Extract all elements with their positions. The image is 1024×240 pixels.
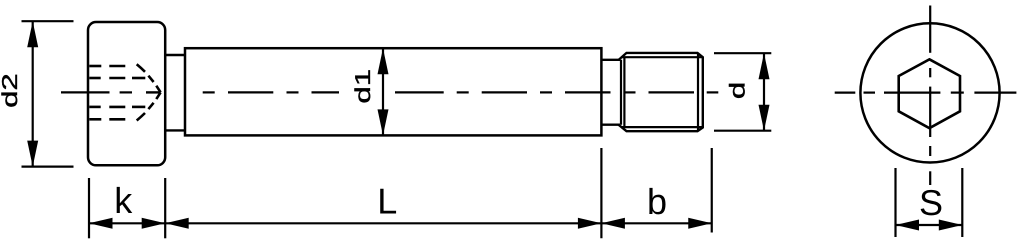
dimension b: dimension line with arrows bbox=[601, 222, 711, 224]
thread runout verticals bbox=[621, 53, 698, 131]
thread minor diameter lines bbox=[621, 57, 703, 127]
dimension d: dimension line with arrows bbox=[763, 53, 765, 131]
shoulder cylinder d1 bbox=[185, 48, 601, 135]
threaded end outer contour with chamfers bbox=[619, 53, 703, 131]
centerline of screw (chain line) bbox=[61, 91, 718, 93]
dimension d: extension lines bbox=[714, 53, 771, 131]
svg-text:k: k bbox=[114, 180, 133, 221]
end view: horizontal centerline bbox=[835, 91, 1017, 93]
socket apex centerline shaft bbox=[146, 91, 161, 93]
socket cone dashed curve (lower) bbox=[137, 92, 161, 120]
svg-text:d1: d1 bbox=[351, 69, 375, 104]
dimension d2: extension lines bbox=[22, 21, 74, 166]
end view: head circle bbox=[860, 23, 999, 162]
dimension k: extension lines bbox=[89, 178, 165, 238]
socket cone dashed curve (upper) bbox=[137, 64, 161, 92]
svg-text:S: S bbox=[919, 182, 943, 223]
hex socket hidden lines (dashed) bbox=[89, 66, 145, 119]
dimension S: extension lines bbox=[896, 168, 963, 237]
svg-text:d2: d2 bbox=[0, 73, 22, 108]
thread undercut neck bbox=[601, 60, 620, 125]
undercut neck under head bbox=[165, 55, 185, 130]
dimension d1: dimension line with arrows bbox=[382, 48, 384, 135]
extension line L right / b left bbox=[600, 148, 602, 238]
end view: hex socket bbox=[899, 59, 960, 128]
dimension L: dimension line with arrows bbox=[165, 222, 601, 224]
dimension k: dimension line with arrows bbox=[89, 222, 165, 224]
dimension d2: dimension line with arrows bbox=[32, 21, 34, 166]
dimension S: dimension line with arrows bbox=[896, 224, 963, 226]
screw head (socket head, side view) bbox=[88, 22, 165, 165]
svg-text:d: d bbox=[726, 82, 750, 99]
svg-text:L: L bbox=[377, 181, 397, 222]
svg-text:b: b bbox=[647, 181, 667, 222]
end view: vertical centerline bbox=[929, 6, 931, 186]
extension line b right bbox=[711, 148, 713, 233]
